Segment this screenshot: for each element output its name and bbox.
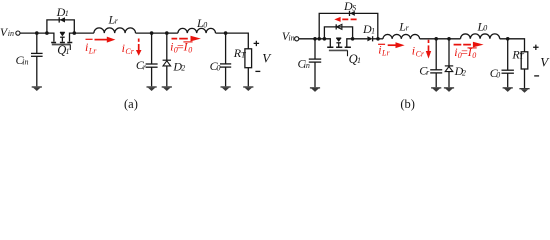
svg-text:0: 0 [217,64,221,73]
svg-text:0: 0 [472,51,476,60]
svg-text:2: 2 [462,68,466,77]
svg-text:(a): (a) [124,97,138,111]
svg-text:1: 1 [65,9,69,18]
svg-text:(b): (b) [400,97,415,111]
svg-text:in: in [288,34,294,43]
svg-text:in: in [304,61,310,70]
svg-text:1: 1 [66,47,70,56]
svg-text:in: in [8,29,14,38]
svg-text:Lr: Lr [381,49,390,58]
svg-text:0: 0 [203,20,207,29]
svg-text:0: 0 [188,46,192,55]
svg-text:2: 2 [181,64,185,73]
svg-text:1: 1 [371,27,375,36]
svg-text:Cr: Cr [125,47,134,56]
svg-text:Lr: Lr [88,46,97,55]
svg-text:Cr: Cr [416,50,425,59]
svg-text:1: 1 [357,56,361,65]
svg-text:S: S [352,4,356,13]
svg-text:in: in [22,57,28,66]
svg-text:0: 0 [496,71,500,80]
svg-text:T: T [241,50,246,59]
svg-text:0: 0 [483,24,487,33]
svg-text:T: T [519,52,524,61]
